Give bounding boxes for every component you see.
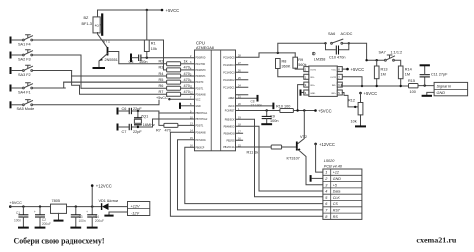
transistor VT2 KT3107 <box>287 135 323 185</box>
svg-text:L5020: L5020 <box>324 159 335 163</box>
svg-text:PD4/T0: PD4/T0 <box>196 82 205 84</box>
svg-text:OUT1: OUT1 <box>310 70 317 72</box>
svg-text:PC1/ADC1: PC1/ADC1 <box>223 86 235 89</box>
svg-text:C7: C7 <box>122 130 127 134</box>
capacitor C9 100n <box>262 111 279 124</box>
ground C11 <box>420 64 430 66</box>
svg-text:PC3/ADC3: PC3/ADC3 <box>223 71 235 74</box>
svg-text:100n: 100n <box>14 219 21 223</box>
svg-text:C11 27pF: C11 27pF <box>431 73 448 77</box>
svg-text:BZ: BZ <box>84 16 90 20</box>
svg-text:R13: R13 <box>381 68 388 72</box>
svg-text:2N5551: 2N5551 <box>105 58 118 62</box>
svg-text:PB2/SS: PB2/SS <box>226 140 235 142</box>
svg-text:PC4/ADC4: PC4/ADC4 <box>223 64 235 67</box>
svg-text:PC6/RST: PC6/RST <box>225 111 235 113</box>
svg-text:22pF: 22pF <box>133 107 142 111</box>
wire LM358 pin6 to signal row <box>340 85 342 86</box>
svg-text:SA5 Mode: SA5 Mode <box>17 107 35 111</box>
wire SA4 to R6 <box>64 82 167 88</box>
svg-text:GND: GND <box>310 93 315 95</box>
svg-text:PD0/RXD: PD0/RXD <box>196 58 206 60</box>
svg-text:PC5/ADC5: PC5/ADC5 <box>223 56 235 59</box>
wire GND row connector <box>427 92 434 94</box>
svg-text:RST: RST <box>333 209 341 213</box>
svg-text:+5VCC: +5VCC <box>10 201 23 205</box>
wire R10 node to VT2 collector <box>298 111 304 144</box>
wire bus LCD pin7 <box>178 140 323 210</box>
ground C5 <box>70 227 81 229</box>
wire -12V <box>109 212 128 215</box>
svg-text:C6: C6 <box>122 107 127 111</box>
node bar on AREF row <box>179 103 181 109</box>
resistor R14 1M <box>398 66 411 86</box>
svg-text:GND: GND <box>196 106 201 108</box>
svg-text:R9: R9 <box>298 58 303 62</box>
capacitor C4 200uF <box>86 207 104 227</box>
wire R10 row <box>236 109 280 111</box>
svg-text:R1: R1 <box>151 42 156 46</box>
wire rail to SA6 <box>278 43 326 53</box>
node E1 sensor bar <box>130 54 132 63</box>
svg-text:SA7: SA7 <box>379 51 386 55</box>
svg-text:PB1/OC1A: PB1/OC1A <box>223 146 235 149</box>
svg-text:VD1 Шотки: VD1 Шотки <box>99 199 118 203</box>
svg-text:R3: R3 <box>159 66 164 70</box>
svg-text:C1: C1 <box>16 211 20 215</box>
svg-text:Signal In: Signal In <box>437 85 452 89</box>
connector X2 LS020 LCD <box>323 159 362 219</box>
svg-text:R12: R12 <box>348 99 355 103</box>
svg-text:R4: R4 <box>159 72 164 76</box>
wire psu rail <box>10 205 50 207</box>
svg-text:PC2/ADC2: PC2/ADC2 <box>223 79 235 82</box>
resistor R13 1M <box>374 59 387 86</box>
node +5VCC psu <box>9 201 22 208</box>
svg-text:R2: R2 <box>159 60 164 64</box>
capacitor C10 470n <box>326 43 349 59</box>
svg-text:CS: CS <box>333 202 339 206</box>
svg-text:+5VCC: +5VCC <box>351 67 365 72</box>
node +12VCC psu <box>91 184 112 207</box>
svg-text:ZQ1: ZQ1 <box>141 115 148 119</box>
resistor R9 560k <box>293 53 307 69</box>
resistor R6 470 <box>81 84 195 90</box>
switch SA6 AC/DC <box>324 32 352 45</box>
svg-text:+5VCC: +5VCC <box>166 8 180 13</box>
resistor R7 470 switch bank <box>72 76 195 96</box>
svg-text:PD1/TXD: PD1/TXD <box>196 64 206 66</box>
ground C9 <box>261 123 272 125</box>
svg-text:PD3/INT1: PD3/INT1 <box>196 76 207 78</box>
svg-text:VCC: VCC <box>331 70 336 72</box>
svg-text:C3: C3 <box>129 60 134 64</box>
node AREF bar <box>236 95 258 102</box>
svg-text:R6: R6 <box>159 84 164 88</box>
svg-text:GND: GND <box>437 91 446 95</box>
svg-text:R10 100: R10 100 <box>276 104 290 108</box>
wire bus LCD pin8 <box>170 132 323 216</box>
ground C4 <box>87 227 98 229</box>
svg-text:470: 470 <box>184 78 190 82</box>
svg-text:PB3/MOSI: PB3/MOSI <box>224 133 235 135</box>
svg-text:100n: 100n <box>79 219 86 223</box>
svg-text:IN2-: IN2- <box>332 85 336 87</box>
svg-text:+5VCC: +5VCC <box>318 109 332 114</box>
node +5VCC LM358 pin8 <box>342 67 364 72</box>
ground bar LCD pin2 <box>311 175 323 182</box>
svg-text:PB4/MISO: PB4/MISO <box>224 126 235 128</box>
op-amp U2 LM358 <box>304 52 343 96</box>
svg-text:PD6/AIN0: PD6/AIN0 <box>196 131 207 134</box>
connector X3 12V supply <box>128 202 150 216</box>
svg-text:VCC: VCC <box>196 99 201 101</box>
resistor R11 1k <box>236 145 296 154</box>
svg-text:ATMEGA8: ATMEGA8 <box>196 46 214 50</box>
svg-text:IN1+: IN1+ <box>310 85 315 87</box>
svg-text:1:1/1:2: 1:1/1:2 <box>391 51 403 55</box>
ground C1 <box>18 227 29 229</box>
svg-text:R7: R7 <box>156 129 161 133</box>
svg-text:7805: 7805 <box>52 199 60 203</box>
resistor R10 100 <box>276 104 332 113</box>
svg-text:470: 470 <box>184 84 190 88</box>
svg-text:RS: RS <box>333 215 339 219</box>
svg-text:R8: R8 <box>282 60 287 64</box>
capacitor C2 200uF <box>34 207 51 227</box>
svg-text:1: 1 <box>325 171 327 175</box>
wire SA3 to R4 <box>71 71 73 77</box>
wire +5V top rail <box>98 9 164 12</box>
svg-text:470: 470 <box>165 129 171 133</box>
svg-text:PD5/T1: PD5/T1 <box>196 88 205 90</box>
wire CPU to divider rail <box>236 53 296 57</box>
ground bar LM358 pin4 <box>301 90 304 96</box>
svg-text:+12: +12 <box>333 171 339 175</box>
node +12VCC <box>314 142 335 172</box>
svg-text:R11 1k: R11 1k <box>247 150 259 154</box>
svg-text:-12V: -12V <box>131 211 139 215</box>
svg-text:1M: 1M <box>381 73 386 77</box>
transistor VT1 2N5551 <box>99 40 118 67</box>
svg-text:AC/DC: AC/DC <box>341 32 353 36</box>
svg-text:+12VCC: +12VCC <box>319 142 335 147</box>
wire AREF row left <box>181 105 195 107</box>
svg-text:+12VCC: +12VCC <box>96 184 112 189</box>
node junction R8 top <box>277 52 279 54</box>
svg-text:PD2/INT0: PD2/INT0 <box>196 70 207 72</box>
resistor R8 360K <box>276 59 304 77</box>
diode VD1 <box>99 199 128 210</box>
svg-text:1M: 1M <box>405 73 410 77</box>
wire unconnected right stubs <box>236 65 248 141</box>
svg-text:PB0/ICP: PB0/ICP <box>196 147 205 149</box>
svg-text:C9: C9 <box>270 114 275 118</box>
svg-text:OUT2: OUT2 <box>330 77 337 79</box>
capacitor C8 100n <box>236 99 274 109</box>
svg-text:AVCC: AVCC <box>228 105 235 108</box>
svg-text:+5VCC: +5VCC <box>364 91 378 96</box>
capacitor C1 100n <box>14 207 28 227</box>
svg-text:100n: 100n <box>139 60 147 64</box>
svg-text:PB7/XTAL2: PB7/XTAL2 <box>196 118 209 121</box>
svg-text:PD5/T1: PD5/T1 <box>196 125 205 127</box>
svg-text:+5vCC: +5vCC <box>156 96 168 100</box>
capacitor C7 22pF <box>118 124 153 134</box>
svg-text:R14: R14 <box>405 68 412 72</box>
svg-text:1T 100n: 1T 100n <box>251 103 263 107</box>
svg-text:SA3 F2: SA3 F2 <box>18 73 31 77</box>
svg-text:IN1-: IN1- <box>310 77 314 79</box>
ground R12 <box>355 125 366 127</box>
svg-text:CLK: CLK <box>333 196 341 200</box>
svg-text:R15: R15 <box>408 79 415 83</box>
wire LM358 pin3 down <box>298 85 304 111</box>
svg-text:IN2+: IN2+ <box>331 93 336 95</box>
svg-text:22pF: 22pF <box>133 130 142 134</box>
svg-text:KT3107: KT3107 <box>287 157 300 161</box>
capacitor C5 100n <box>71 207 86 227</box>
ground -12V <box>104 215 113 217</box>
svg-text:SA4 F1: SA4 F1 <box>18 90 31 94</box>
svg-text:SA1 F4: SA1 F4 <box>18 42 31 46</box>
switch SA7 1:1/1:2 <box>365 51 402 67</box>
resistor R15 100 <box>408 79 434 94</box>
svg-text:470: 470 <box>184 72 190 76</box>
wire signal row <box>340 85 409 87</box>
capacitor C11 27pF <box>420 66 448 85</box>
svg-text:SA6: SA6 <box>328 32 335 36</box>
svg-text:4: 4 <box>325 190 327 194</box>
svg-text:+12V: +12V <box>131 204 140 208</box>
svg-text:Собери свою радиосхему!: Собери свою радиосхему! <box>14 236 105 246</box>
wire LM358 pin7 feedback <box>341 77 362 86</box>
wire xtal2 to CPU <box>153 119 195 127</box>
connector X1 Signal In / GND <box>434 82 468 95</box>
resistor R4 470 <box>72 72 195 78</box>
buzzer BZ BF1 <box>82 10 103 36</box>
wire bus LCD pin4 <box>236 126 323 191</box>
svg-text:200uF: 200uF <box>42 222 51 226</box>
regulator 7805 <box>51 199 102 220</box>
svg-text:PB6/XTAL1: PB6/XTAL1 <box>196 112 209 115</box>
svg-text:10k: 10k <box>151 47 157 51</box>
wire SA1 to R3 <box>163 40 165 70</box>
crystal ZQ1 16MHz <box>134 111 155 127</box>
resistor R12 10k <box>348 91 377 126</box>
svg-text:470: 470 <box>184 66 190 70</box>
svg-text:+5: +5 <box>333 183 337 187</box>
switch SA5 Mode <box>11 100 160 111</box>
node +5VCC cpu left <box>156 96 195 100</box>
capacitor C6 22pF <box>118 107 159 115</box>
svg-text:PB5/SCK: PB5/SCK <box>225 119 235 121</box>
svg-text:R7: R7 <box>159 90 164 94</box>
resistor R1 10k <box>144 10 157 58</box>
switch SA4 F1 <box>11 83 66 95</box>
svg-text:LM358: LM358 <box>314 57 326 61</box>
capacitor C3 100n <box>129 55 195 65</box>
ground 7805 <box>54 220 64 222</box>
svg-text:+: + <box>86 210 88 214</box>
svg-text:10k: 10k <box>351 120 357 124</box>
svg-text:C10 470n: C10 470n <box>329 56 345 60</box>
svg-text:BF1-3: BF1-3 <box>82 22 92 26</box>
resistor R5 470 <box>64 78 195 84</box>
svg-text:100: 100 <box>410 90 416 94</box>
wire xtal1 to CPU <box>159 111 195 113</box>
svg-text:GND: GND <box>333 177 341 181</box>
svg-text:PCB v4.40: PCB v4.40 <box>324 164 343 168</box>
ground VT1 emitter <box>93 67 106 69</box>
resistor R3 470 <box>159 66 195 72</box>
svg-text:cxema21.ru: cxema21.ru <box>416 236 457 245</box>
svg-text:Data: Data <box>333 190 341 194</box>
wire VT1 base to R2 row <box>109 52 167 64</box>
wire buzzer to VT1 collector <box>98 33 108 48</box>
svg-text:SA2 F3: SA2 F3 <box>18 57 31 61</box>
op-amp U1 CPU ATMEGA8 <box>190 41 241 151</box>
wire SA6 to SA7 <box>349 43 385 60</box>
wire SA2 to R5 <box>80 55 82 88</box>
svg-text:1k: 1k <box>184 60 188 64</box>
wire bus LCD pin5 <box>236 119 323 197</box>
svg-text:R5: R5 <box>159 78 164 82</box>
wire LM358 pin5 to R12 <box>342 93 358 107</box>
svg-text:470: 470 <box>184 90 190 94</box>
resistor R7 470 <box>156 113 195 133</box>
svg-text:CPU: CPU <box>196 41 205 46</box>
switch SA2 F3 <box>11 50 82 62</box>
wire bus LCD pin6 <box>185 147 323 203</box>
ground C2 <box>35 227 46 229</box>
svg-text:200uF: 200uF <box>95 219 104 223</box>
resistor R2 1k <box>159 60 195 66</box>
switch SA1 F4 <box>11 35 164 47</box>
node R12 left <box>354 106 356 108</box>
svg-text:AREF: AREF <box>228 97 235 100</box>
switch SA3 F2 <box>11 65 72 77</box>
svg-text:VT2: VT2 <box>300 135 307 139</box>
svg-text:100n: 100n <box>270 119 278 123</box>
svg-text:+: + <box>34 210 36 214</box>
svg-text:PD7/AIN1: PD7/AIN1 <box>196 139 207 142</box>
svg-text:360K: 360K <box>282 65 291 69</box>
ground connector <box>422 95 432 97</box>
svg-text:PD6/AIN0: PD6/AIN0 <box>196 93 207 96</box>
